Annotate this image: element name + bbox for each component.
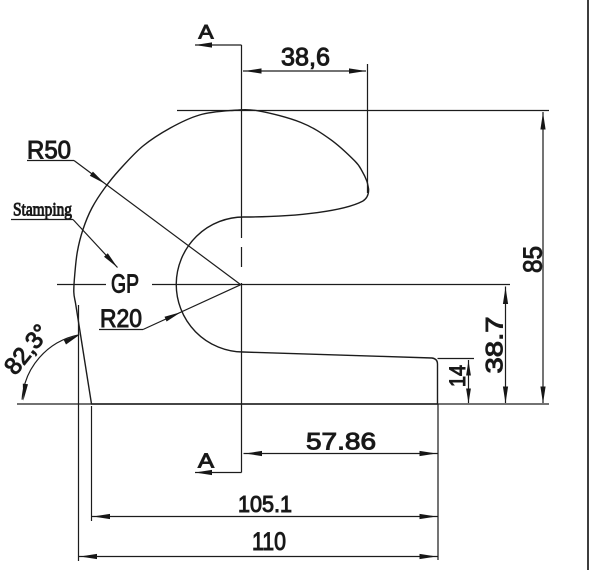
svg-text:57.86: 57.86 bbox=[306, 429, 376, 456]
centerline dash above GP center bbox=[241, 247, 243, 267]
angle dimension arc 82,3 deg bbox=[22, 335, 79, 400]
extension line of step edge bbox=[438, 358, 475, 360]
svg-text:38,6: 38,6 bbox=[281, 44, 330, 72]
svg-text:38.7: 38.7 bbox=[482, 317, 509, 374]
svg-text:105.1: 105.1 bbox=[238, 491, 292, 517]
drawing border right edge bbox=[587, 0, 589, 570]
dimension 38.7 line bbox=[505, 287, 507, 404]
svg-text:14: 14 bbox=[445, 365, 470, 387]
part outline profile bbox=[74, 110, 438, 404]
extension of right edge downward bbox=[437, 404, 439, 560]
horizontal centerline right segment bbox=[152, 284, 510, 286]
dimension 57.86 line bbox=[244, 453, 438, 455]
top extension line at y=110 bbox=[177, 110, 549, 112]
extension line bottom-left corner bbox=[91, 406, 93, 521]
horizontal centerline left segment bbox=[57, 284, 106, 286]
section arrow A bottom bbox=[195, 472, 242, 474]
section arrow A top bbox=[195, 44, 242, 46]
bottom baseline extension bbox=[17, 403, 549, 405]
svg-text:85: 85 bbox=[518, 246, 548, 273]
svg-text:110: 110 bbox=[252, 528, 286, 556]
dimension 85 line bbox=[542, 112, 544, 403]
extension line right of 38,6 bbox=[367, 64, 369, 193]
svg-text:Stamping: Stamping bbox=[13, 200, 72, 221]
svg-text:GP: GP bbox=[111, 269, 139, 299]
dimension 105.1 line bbox=[92, 516, 438, 518]
section line A-A vertical bbox=[241, 45, 243, 238]
dimension 38,6 line bbox=[243, 70, 366, 72]
extension line leftmost bbox=[78, 305, 80, 561]
dimension 110 line bbox=[79, 556, 438, 558]
dimension 14 line bbox=[468, 360, 470, 403]
svg-text:A: A bbox=[198, 451, 215, 473]
svg-text:A: A bbox=[199, 23, 214, 44]
svg-text:R20: R20 bbox=[100, 305, 142, 333]
